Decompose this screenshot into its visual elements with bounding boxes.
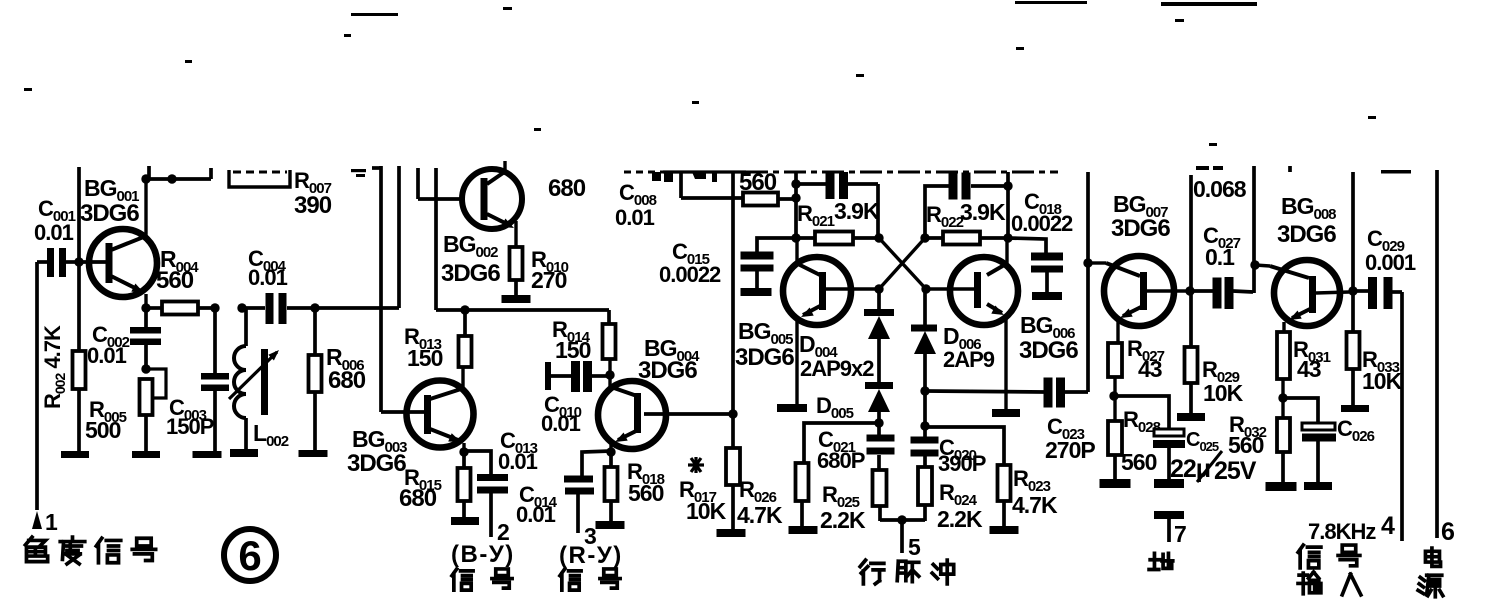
transistor BG006 xyxy=(928,239,1018,409)
svg-text:560: 560 xyxy=(1228,432,1264,458)
ground xyxy=(789,526,818,534)
ground xyxy=(717,529,746,537)
resistor R013 xyxy=(459,305,472,367)
svg-text:6: 6 xyxy=(1441,518,1454,546)
label L002 xyxy=(253,420,289,450)
label C025 22u/25V xyxy=(1170,429,1257,485)
label R017 10K xyxy=(679,477,727,524)
resistor R010 xyxy=(510,247,523,296)
ground xyxy=(741,288,772,296)
capacitor C021 xyxy=(867,423,895,470)
label R027 43 xyxy=(1127,336,1165,382)
node D006 bottom xyxy=(920,386,929,395)
node BG004 emitter xyxy=(606,447,615,456)
svg-text:43: 43 xyxy=(1297,356,1321,382)
resistor R033 xyxy=(1347,332,1360,406)
label 6 xyxy=(1441,518,1454,546)
node A (BG001 base bias line) xyxy=(74,167,83,267)
resistor R014 xyxy=(603,310,616,389)
label 信号输入 xyxy=(1298,545,1361,595)
transistor BG003 xyxy=(407,368,474,452)
transistor BG001 xyxy=(89,181,157,305)
svg-text:390P: 390P xyxy=(938,451,986,476)
svg-text:5: 5 xyxy=(908,534,921,560)
ground xyxy=(1266,482,1297,491)
svg-text:560: 560 xyxy=(739,169,777,196)
terminal 6 wire (power) xyxy=(1290,166,1437,538)
wire xyxy=(79,260,106,264)
label 信号 xyxy=(560,569,620,590)
resistor R025 xyxy=(873,470,887,521)
resistor R017 xyxy=(726,448,740,530)
label R031 43 xyxy=(1293,337,1331,382)
dashed supply rail xyxy=(624,171,1058,174)
node BG008 emitter divider xyxy=(1278,393,1287,402)
label BG004 3DG6 xyxy=(638,335,700,384)
resistor R026 xyxy=(796,463,809,527)
svg-text:2.2K: 2.2K xyxy=(820,507,866,533)
resistor R029 xyxy=(1185,347,1198,414)
label D004 2AP9x2 xyxy=(799,331,874,381)
label BG006 3DG6 xyxy=(1019,312,1078,364)
label 560 xyxy=(739,169,777,196)
node BG007 emitter divider xyxy=(1109,391,1118,400)
svg-text:3DG6: 3DG6 xyxy=(80,200,139,227)
diode D006 xyxy=(911,289,937,391)
ground xyxy=(230,449,258,457)
transistor BG002 xyxy=(462,161,522,247)
svg-text:560: 560 xyxy=(1121,449,1157,475)
wire to R023 xyxy=(925,427,1004,465)
terminal 1 (chroma signal input) xyxy=(32,262,58,535)
svg-text:BG008: BG008 xyxy=(1281,193,1336,223)
svg-text:0.01: 0.01 xyxy=(87,343,127,368)
node BG003 emitter xyxy=(459,447,468,456)
resistor R018 xyxy=(605,452,618,521)
wire riser xyxy=(436,168,609,310)
svg-text:BG002: BG002 xyxy=(443,231,498,261)
capacitor C010 xyxy=(545,361,607,392)
svg-text:150: 150 xyxy=(555,337,591,363)
label R013 150 xyxy=(404,324,443,371)
transistor BG005 xyxy=(783,238,877,404)
resistor R006 xyxy=(309,308,322,452)
label 7.8kHz xyxy=(1308,519,1376,544)
svg-text:150P: 150P xyxy=(166,414,214,439)
label BG001 3DG6 xyxy=(80,175,139,227)
capacitor C015 xyxy=(741,238,796,289)
ground xyxy=(451,517,479,525)
svg-text:4: 4 xyxy=(1381,512,1395,540)
junction xyxy=(791,179,800,188)
transistor BG008 xyxy=(1255,260,1349,332)
capacitor C027 xyxy=(1190,277,1253,309)
capacitor C018 xyxy=(1008,238,1063,293)
ground xyxy=(1304,482,1332,490)
resistor R002 xyxy=(73,262,86,452)
ground xyxy=(1177,413,1205,421)
junction L002 xyxy=(237,303,246,312)
capacitor C020 xyxy=(911,391,939,467)
label 5 xyxy=(908,534,921,560)
label R023 4.7K xyxy=(1012,466,1058,518)
label 4 xyxy=(1381,512,1395,540)
label R028 560 xyxy=(1121,407,1161,475)
inductor L002 (adjustable) xyxy=(229,308,279,449)
svg-text:C026: C026 xyxy=(1337,416,1375,445)
cross-coupling wire xyxy=(879,238,925,289)
label BG007 3DG6 xyxy=(1111,191,1170,242)
resistor R011 560 xyxy=(743,193,796,206)
svg-text:0.01: 0.01 xyxy=(615,205,655,230)
cut-off component marks xyxy=(692,172,717,182)
ground xyxy=(777,404,807,412)
svg-text:0.01: 0.01 xyxy=(34,220,74,245)
label 0.068 xyxy=(1193,166,1247,202)
label C015 0.0022 xyxy=(659,239,721,287)
wire xyxy=(315,306,399,310)
svg-text:2AP9: 2AP9 xyxy=(943,347,995,372)
transistor BG007 xyxy=(1092,256,1186,343)
capacitor C026 electrolytic xyxy=(1283,398,1336,483)
junction C003 xyxy=(210,303,219,312)
svg-text:680: 680 xyxy=(399,485,437,512)
ground xyxy=(596,521,625,529)
node xyxy=(141,364,150,373)
label R007 390 xyxy=(294,168,332,219)
label (B-Y) xyxy=(451,541,515,568)
svg-text:500: 500 xyxy=(85,417,121,443)
label C002 0.01 xyxy=(87,322,130,368)
capacitor C001 xyxy=(37,248,79,277)
resistor R021 xyxy=(791,232,883,245)
label D006 2AP9 xyxy=(943,323,995,372)
svg-text:22μ: 22μ xyxy=(1170,455,1210,483)
svg-text:0.0022: 0.0022 xyxy=(1011,211,1073,236)
node BG001 collector xyxy=(141,166,150,184)
svg-text:3.9K: 3.9K xyxy=(960,199,1006,225)
svg-text:560: 560 xyxy=(628,480,664,506)
label BG005 3DG6 xyxy=(735,318,794,371)
label BG003 3DG6 xyxy=(347,426,407,477)
label BG002 3DG6 xyxy=(441,231,500,287)
ground xyxy=(992,409,1020,417)
diode D004 xyxy=(864,289,894,383)
label BG008 3DG6 xyxy=(1277,193,1336,248)
wire BG003 base riser xyxy=(372,166,424,412)
ground xyxy=(299,450,328,457)
label C008 0.01 xyxy=(615,180,657,230)
wire BG005 collector column xyxy=(794,172,798,238)
svg-text:25V: 25V xyxy=(1214,457,1257,485)
capacitor C023 xyxy=(1044,378,1089,408)
label R026 4.7K xyxy=(737,477,783,528)
resistor R028 xyxy=(1108,421,1122,480)
svg-text:680: 680 xyxy=(328,367,366,394)
label 680 (R009) xyxy=(548,175,586,202)
wire riser xyxy=(397,166,401,308)
figure number 6 xyxy=(224,529,276,581)
svg-text:2AP9x2: 2AP9x2 xyxy=(800,356,874,381)
svg-text:680P: 680P xyxy=(817,448,865,473)
label R021 3.9K xyxy=(797,198,880,230)
label 7 xyxy=(1174,521,1186,547)
terminal 5 bus xyxy=(880,515,925,553)
terminal 2 xyxy=(497,519,509,545)
svg-text:10K: 10K xyxy=(1362,368,1403,394)
label C021 680P xyxy=(817,427,865,473)
junction xyxy=(791,193,800,202)
label 信号 xyxy=(452,569,512,590)
svg-text:43: 43 xyxy=(1138,356,1162,382)
wire BG008 base column xyxy=(1250,166,1259,293)
wire xyxy=(925,391,1044,392)
svg-text:(R-У): (R-У) xyxy=(559,542,623,569)
ground xyxy=(1154,479,1184,488)
wire BG002 base xyxy=(418,168,462,199)
cross-coupling wire xyxy=(879,238,926,289)
svg-text:L002: L002 xyxy=(253,420,289,450)
svg-text:0.068: 0.068 xyxy=(1193,176,1247,202)
node BG001 emitter xyxy=(141,303,150,312)
resistor R004 xyxy=(146,302,215,315)
svg-text:3DG6: 3DG6 xyxy=(1277,221,1336,248)
wire xyxy=(146,177,211,181)
svg-text:6: 6 xyxy=(238,532,261,579)
resistor R031 xyxy=(1277,332,1290,418)
label C027 0.1 xyxy=(1203,223,1241,270)
capacitor C014 xyxy=(564,451,611,533)
label C023 270P xyxy=(1045,414,1095,463)
node BG006 base xyxy=(921,284,930,293)
diode D005 xyxy=(865,382,893,424)
svg-text:7: 7 xyxy=(1174,521,1186,547)
label R004 560 xyxy=(156,246,199,294)
svg-text:390: 390 xyxy=(294,192,332,219)
svg-text:0.01: 0.01 xyxy=(541,411,581,436)
ground xyxy=(193,451,222,458)
wire R033 column xyxy=(1348,172,1357,332)
terminal 4 wire xyxy=(1400,292,1404,541)
label R024 2.2K xyxy=(937,480,983,532)
junction xyxy=(167,174,176,183)
resistor R022 xyxy=(920,232,1012,245)
svg-text:1: 1 xyxy=(45,509,58,535)
svg-text:3DG6: 3DG6 xyxy=(638,357,697,384)
svg-text:(В-У): (В-У) xyxy=(451,541,515,568)
label (R-Y) xyxy=(559,542,623,569)
svg-text:10K: 10K xyxy=(1203,380,1244,406)
svg-text:3DG6: 3DG6 xyxy=(1019,337,1078,364)
label R025 2.2K xyxy=(820,482,866,533)
resistor R023 xyxy=(998,465,1011,527)
svg-text:270P: 270P xyxy=(1045,437,1095,463)
label 地 xyxy=(1149,553,1173,569)
svg-text:270: 270 xyxy=(531,267,567,293)
capacitor C003 xyxy=(201,308,229,452)
node BG005 base xyxy=(874,284,883,293)
wire BG004 base column xyxy=(728,172,737,448)
svg-text:3DG6: 3DG6 xyxy=(1111,215,1170,242)
svg-text:3DG6: 3DG6 xyxy=(441,260,500,287)
svg-text:R023: R023 xyxy=(1013,466,1051,495)
asterisk xyxy=(688,457,704,473)
label D005 xyxy=(816,393,854,422)
label C014 0.01 xyxy=(516,482,558,527)
label C003 150P xyxy=(166,395,214,439)
capacitor C004 xyxy=(242,293,315,324)
svg-text:0.01: 0.01 xyxy=(248,265,288,290)
label C026 xyxy=(1337,416,1375,445)
node xyxy=(874,418,883,427)
label C004 0.01 xyxy=(248,246,288,290)
ground xyxy=(1341,405,1369,412)
label R006 680 xyxy=(326,344,366,394)
capacitor C017 xyxy=(796,172,878,238)
ground xyxy=(61,451,89,458)
svg-text:0.1: 0.1 xyxy=(1205,244,1235,270)
ground xyxy=(1032,292,1062,300)
resistor R015 xyxy=(458,452,471,518)
wire to R026 xyxy=(804,423,879,463)
svg-text:R022: R022 xyxy=(926,202,964,231)
svg-text:D005: D005 xyxy=(816,393,854,422)
svg-text:150: 150 xyxy=(407,345,443,371)
svg-text:0.01: 0.01 xyxy=(516,502,556,527)
svg-text:3.9K: 3.9K xyxy=(834,198,880,224)
svg-text:0.001: 0.001 xyxy=(1365,250,1416,275)
label R022 3.9K xyxy=(926,199,1006,231)
label R010 270 xyxy=(531,247,569,293)
svg-text:3DG6: 3DG6 xyxy=(735,344,794,371)
label 行脉冲 xyxy=(860,560,954,584)
label R033 10K xyxy=(1362,347,1403,394)
label R002 4.7K xyxy=(40,325,68,409)
resistor R003 (cut off at top) xyxy=(229,170,290,187)
svg-text:0.01: 0.01 xyxy=(498,449,538,474)
svg-text:4.7K: 4.7K xyxy=(737,502,783,528)
terminal 3 xyxy=(584,523,596,549)
svg-text:10K: 10K xyxy=(686,498,727,524)
svg-text:3DG6: 3DG6 xyxy=(347,450,406,477)
capacitor C016 xyxy=(925,173,1013,239)
label R029 10K xyxy=(1202,357,1244,406)
terminal 7 (ground) xyxy=(1154,511,1184,542)
svg-text:0.0022: 0.0022 xyxy=(659,262,721,287)
svg-text:7.8KHz: 7.8KHz xyxy=(1308,519,1376,544)
ground xyxy=(990,526,1019,534)
junction R006 xyxy=(310,303,319,312)
label R032 560 xyxy=(1228,412,1267,458)
transistor BG004 xyxy=(598,381,731,452)
svg-text:560: 560 xyxy=(156,267,194,294)
label R014 150 xyxy=(552,317,591,363)
label C013 0.01 xyxy=(498,428,538,474)
wire BG006 collector column xyxy=(1006,172,1010,238)
label C010 0.01 xyxy=(541,392,582,436)
label C029 0.001 xyxy=(1365,170,1416,275)
svg-text:2.2K: 2.2K xyxy=(937,506,983,532)
wire BG007 base column xyxy=(1083,172,1092,392)
capacitor C013 xyxy=(464,451,508,537)
svg-text:4.7K: 4.7K xyxy=(1012,492,1058,518)
svg-text:680: 680 xyxy=(548,175,586,202)
svg-text:C025: C025 xyxy=(1186,429,1219,454)
label R005 500 xyxy=(85,397,127,443)
label 色度信号 xyxy=(25,537,155,564)
label C001 0.01 xyxy=(34,196,76,245)
label 电源 xyxy=(1418,548,1443,597)
resistor R024 xyxy=(918,467,932,521)
capacitor C002 xyxy=(130,308,161,369)
label R015 680 xyxy=(399,465,442,512)
junction C010 xyxy=(605,370,614,379)
label C020 390P xyxy=(938,435,986,476)
svg-text:R024: R024 xyxy=(939,480,978,509)
capacitor C029 xyxy=(1353,277,1402,309)
ground xyxy=(502,295,531,303)
svg-text:R021: R021 xyxy=(797,201,835,230)
resistor R032 xyxy=(1277,418,1290,483)
preset resistor R005 xyxy=(140,369,167,452)
capacitor C025 electrolytic xyxy=(1114,396,1185,480)
ground xyxy=(132,451,160,458)
wire xyxy=(681,172,743,198)
wire fragment xyxy=(351,169,366,177)
ground xyxy=(1100,479,1131,488)
label R018 560 xyxy=(627,459,665,506)
wire R029 column xyxy=(1185,175,1194,347)
wire stub xyxy=(209,168,213,179)
label C018 0.0022 xyxy=(1011,189,1073,236)
svg-text:R002 4.7K: R002 4.7K xyxy=(40,325,68,409)
capacitor C008 (cut off) xyxy=(652,172,673,182)
resistor R027 xyxy=(1108,343,1122,421)
